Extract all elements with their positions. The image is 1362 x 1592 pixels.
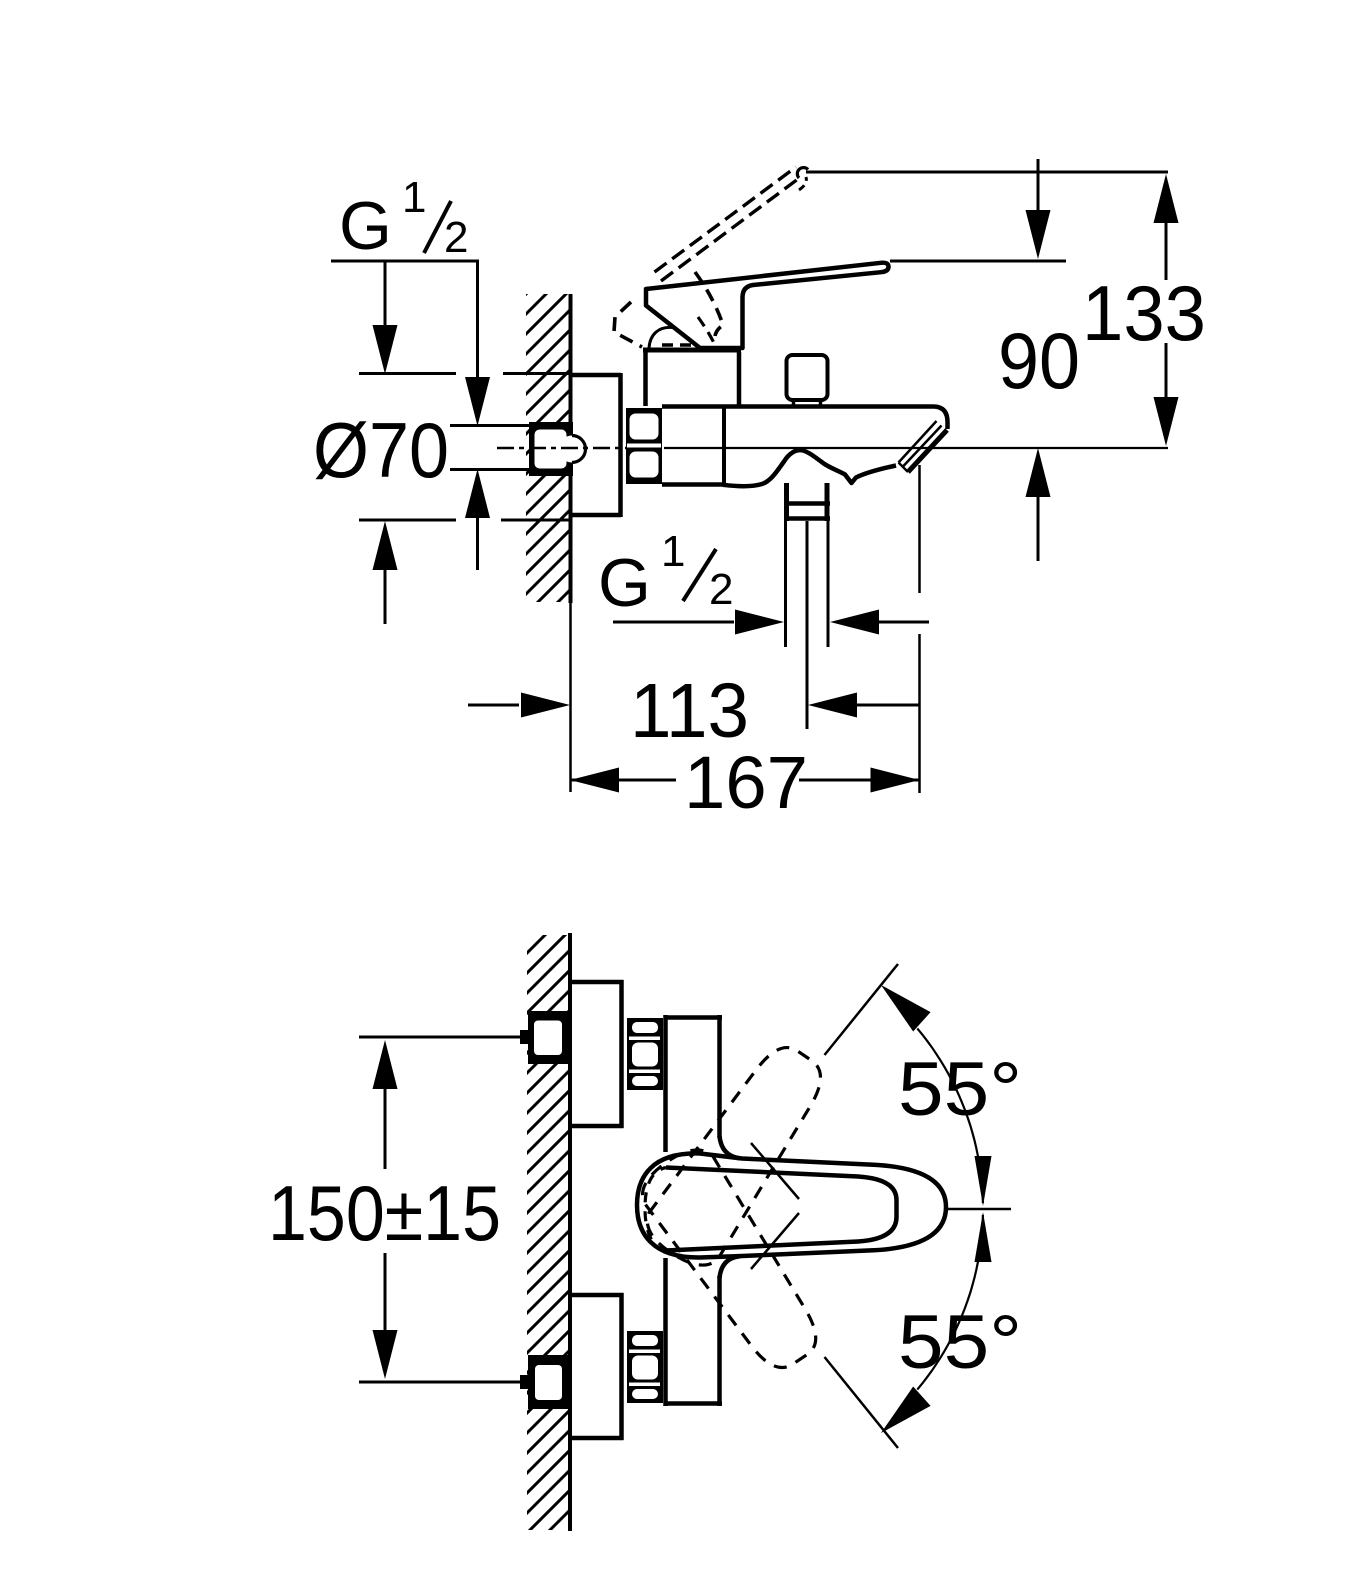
svg-text:2: 2	[444, 213, 468, 262]
svg-text:133: 133	[1082, 269, 1206, 357]
svg-text:2: 2	[709, 565, 733, 614]
svg-text:G: G	[598, 545, 651, 621]
svg-text:150±15: 150±15	[268, 1169, 501, 1257]
svg-text:Ø70: Ø70	[313, 406, 449, 494]
svg-text:167: 167	[684, 741, 808, 824]
svg-text:1: 1	[661, 527, 685, 576]
svg-text:G: G	[339, 188, 392, 264]
svg-text:55°: 55°	[898, 1300, 1022, 1385]
svg-text:90: 90	[998, 316, 1080, 405]
svg-text:55°: 55°	[898, 1047, 1022, 1132]
svg-text:1: 1	[402, 173, 426, 222]
